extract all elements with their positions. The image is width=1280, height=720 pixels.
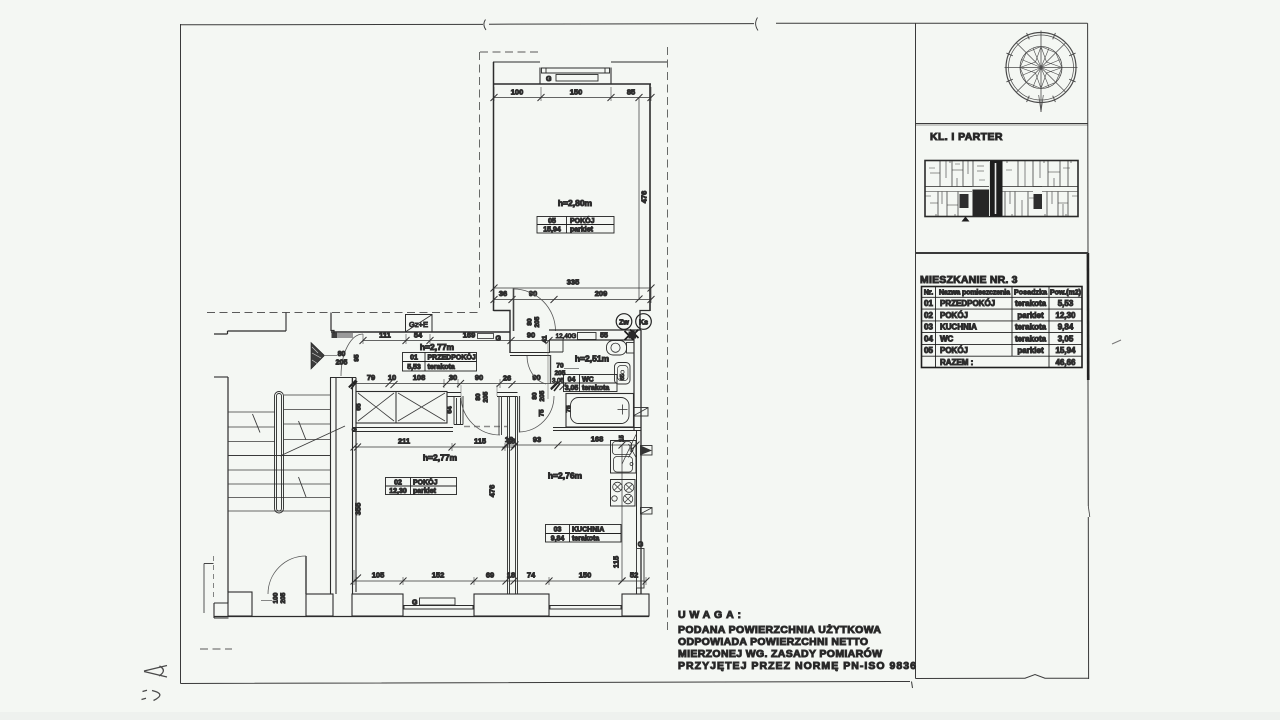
stove burner 4 crossed <box>623 494 633 504</box>
border frame top squiggle 2 <box>756 18 758 31</box>
svg-text:74: 74 <box>527 571 536 580</box>
south dimension line 105|152|69|18|74|150|52 <box>354 580 646 582</box>
kitchen sink dim ticks <box>619 442 626 585</box>
svg-text:ODPOWIADA POWIERZCHNI NETTO: ODPOWIADA POWIERZCHNI NETTO <box>678 636 868 648</box>
svg-text:12,40G: 12,40G <box>556 333 577 340</box>
room 05 radiator rect <box>556 75 598 82</box>
stair entry door leaf <box>305 556 307 594</box>
south wall block room02 west <box>352 594 403 616</box>
svg-text:Zw: Zw <box>619 320 629 327</box>
bathtub valve diagonal <box>634 408 648 416</box>
svg-text:100: 100 <box>273 592 280 603</box>
footprint bottom edge notches <box>936 161 1071 217</box>
toilet tank <box>627 343 635 354</box>
svg-text:152: 152 <box>432 571 445 580</box>
svg-text:115: 115 <box>612 556 621 568</box>
stair block north jamb vertical <box>285 313 287 332</box>
panel separator above table <box>916 252 1089 254</box>
svg-text:476: 476 <box>640 191 649 204</box>
svg-text:108: 108 <box>413 373 426 382</box>
south wall block pier <box>474 594 549 616</box>
entrance arrow triangle <box>311 343 325 370</box>
room 05 east vertical dimension ticks <box>636 94 643 303</box>
stair walls top cap <box>330 377 356 379</box>
stair block north wall <box>214 331 286 334</box>
hallway top dimension ticks <box>360 337 553 344</box>
svg-text:WC: WC <box>940 334 954 343</box>
svg-text:h=2,77m: h=2,77m <box>423 453 458 463</box>
svg-text:70: 70 <box>556 363 564 370</box>
svg-text:5,53: 5,53 <box>407 364 421 371</box>
room 05 north outer wall left segment <box>493 61 540 63</box>
closet outer rect <box>356 392 447 424</box>
kitchen sink taps <box>630 449 633 452</box>
svg-text:15,94: 15,94 <box>1055 346 1076 355</box>
closet south thin wall <box>352 428 453 432</box>
table column lines <box>936 287 1050 368</box>
stray mark right of table <box>1112 340 1121 344</box>
svg-text:parkiet: parkiet <box>1017 311 1044 320</box>
svg-text:65: 65 <box>620 374 626 380</box>
svg-text:POKÓJ: POKÓJ <box>940 346 968 355</box>
room 05 north outer wall right segment <box>611 61 667 63</box>
svg-text:80: 80 <box>532 392 539 400</box>
room02 door swing arc <box>461 397 500 436</box>
svg-text:PRZEDPOKÓJ: PRZEDPOKÓJ <box>428 353 476 362</box>
room02 name box <box>386 478 457 495</box>
compass web inner star <box>1020 47 1062 89</box>
svg-text:52: 52 <box>630 571 638 580</box>
svg-text:3,05: 3,05 <box>565 385 579 392</box>
entrance door arc <box>341 334 363 376</box>
table row lines <box>922 297 1083 356</box>
footprint lower corridor line <box>925 191 1078 193</box>
stair treads right flight <box>284 395 331 440</box>
svg-text:75: 75 <box>539 409 546 417</box>
compass web square 1 <box>1020 47 1062 89</box>
footprint stair core white slit <box>995 163 997 214</box>
svg-text:90: 90 <box>527 331 535 340</box>
closet divider <box>395 392 397 424</box>
stove burner 1 crossed <box>613 482 623 492</box>
handwritten chevron <box>152 691 160 701</box>
svg-text:95: 95 <box>354 354 361 362</box>
hallway west jamb wall <box>331 313 334 334</box>
svg-text:PRZEDPOKÓJ: PRZEDPOKÓJ <box>940 299 995 308</box>
svg-text:G: G <box>496 336 502 343</box>
svg-text:80: 80 <box>338 351 346 358</box>
dashed boundary vertical left <box>479 52 481 308</box>
kitchen sink basin lower <box>614 457 633 473</box>
svg-text:01: 01 <box>410 355 418 362</box>
closet X right <box>398 393 445 421</box>
kitchen sink basin upper <box>613 442 632 455</box>
kitchen sink unit <box>611 441 637 474</box>
wc north wall inner <box>549 339 634 341</box>
svg-text:03: 03 <box>924 323 933 332</box>
svg-text:355: 355 <box>354 503 363 516</box>
svg-text:30: 30 <box>449 373 457 382</box>
svg-text:18: 18 <box>507 437 515 446</box>
room02 window label rect <box>420 598 456 605</box>
stair treads lower flight <box>228 470 331 511</box>
svg-text:MIERZONEJ WG. ZASADY POMIARÓW: MIERZONEJ WG. ZASADY POMIARÓW <box>678 647 882 660</box>
stair arrow slash right lower <box>299 477 307 497</box>
svg-text:04: 04 <box>568 377 576 384</box>
room02 west wall <box>353 378 357 595</box>
room 05 bay window left jamb <box>539 68 541 85</box>
dimension extension lines room05 top <box>494 87 651 101</box>
stair entry door swing arc <box>268 556 306 594</box>
svg-text:211: 211 <box>398 437 410 446</box>
svg-text:15: 15 <box>620 435 626 442</box>
hallway north wall <box>331 331 510 333</box>
svg-text:209: 209 <box>595 289 608 298</box>
kitchen sink dim vertical 115 <box>621 445 623 581</box>
wc door swing arc <box>527 356 546 384</box>
south wall block stair east <box>306 594 333 616</box>
footprint dark block right stair <box>1034 194 1043 209</box>
east wall outer full <box>640 330 642 594</box>
svg-text:G: G <box>638 542 644 549</box>
svg-text:115: 115 <box>474 437 486 446</box>
wc name box <box>564 375 618 392</box>
entrance jamb dark block <box>332 332 338 338</box>
panel divider vertical <box>915 24 917 679</box>
svg-text:205: 205 <box>534 316 541 327</box>
svg-text:3,05: 3,05 <box>552 379 564 385</box>
svg-text:12,30: 12,30 <box>1055 311 1076 320</box>
svg-text:41: 41 <box>542 335 549 343</box>
room 05 southwest wall step <box>494 311 511 354</box>
border frame right gap jog <box>1088 506 1090 517</box>
svg-text:85: 85 <box>627 88 635 97</box>
south wall block stair west <box>228 592 252 616</box>
boiler circle Ks <box>636 314 652 330</box>
svg-text:205: 205 <box>336 360 348 367</box>
room02 top dimension line 211|115|18 <box>354 446 514 448</box>
room 05 southeast chimney notch <box>640 311 650 331</box>
room 05 name box <box>537 217 614 234</box>
svg-text:PRZYJĘTEJ PRZEZ NORMĘ PN-ISO 9: PRZYJĘTEJ PRZEZ NORMĘ PN-ISO 9836 <box>678 660 916 672</box>
entrance threshold hatch <box>336 333 353 339</box>
svg-text:150: 150 <box>579 571 592 580</box>
border frame bottom <box>181 675 1089 684</box>
svg-text:01: 01 <box>924 299 933 308</box>
room 05 top dimension line 100|150|85 <box>494 97 651 99</box>
svg-text:69: 69 <box>486 571 494 580</box>
room02 north wall right piece <box>497 393 518 397</box>
svg-text:POKÓJ: POKÓJ <box>940 311 968 320</box>
svg-text:335: 335 <box>567 278 580 287</box>
svg-text:205: 205 <box>483 391 490 402</box>
room 05 dimension extension verticals <box>494 288 651 303</box>
stair arrow slash right upper <box>299 421 307 440</box>
washbasin outer <box>615 363 631 385</box>
svg-text:h=2,51m: h=2,51m <box>575 354 610 364</box>
stair treads left flight <box>228 412 275 442</box>
wc north wall window rect <box>578 333 597 340</box>
kitchen name box <box>546 525 622 543</box>
hallway south dimension ticks <box>349 380 567 390</box>
svg-text:04: 04 <box>924 334 933 343</box>
svg-text:terakota: terakota <box>1015 299 1047 308</box>
footprint room details <box>930 166 1068 205</box>
svg-text:3,05: 3,05 <box>1058 334 1074 343</box>
room 05 dimension 335 ticks <box>491 285 655 292</box>
stair block west wall cap <box>214 376 228 378</box>
svg-text:105: 105 <box>372 571 385 580</box>
svg-text:15,94: 15,94 <box>543 227 561 234</box>
svg-text:Gz+E: Gz+E <box>409 320 428 329</box>
svg-text:G: G <box>412 600 418 607</box>
svg-text:MIESZKANIE NR. 3: MIESZKANIE NR. 3 <box>920 274 1018 286</box>
room 05 east wall <box>649 84 651 311</box>
room02 window glazing <box>403 606 474 610</box>
svg-text:Posadzka: Posadzka <box>1014 290 1047 297</box>
wc door leaf <box>550 355 552 384</box>
handwritten letter A rotated <box>144 666 167 678</box>
hallway top dimension line 111|54|169|90 <box>363 340 549 342</box>
svg-text:h=2,76m: h=2,76m <box>548 471 583 481</box>
east wall kitchen inner <box>636 431 638 594</box>
border frame left <box>180 24 182 684</box>
svg-text:80: 80 <box>475 393 482 401</box>
svg-text:RAZEM :: RAZEM : <box>940 358 973 367</box>
wc dim extension vertical <box>547 341 549 399</box>
stair block west wall <box>227 377 229 592</box>
stair railing loop <box>275 392 284 514</box>
footprint dark block left stair <box>960 194 969 208</box>
svg-text:h=2,80m: h=2,80m <box>558 198 593 208</box>
south dimension ticks <box>351 578 650 585</box>
footprint bottom partitions <box>938 192 1068 217</box>
room02 door jamb stub <box>454 396 463 425</box>
border frame top <box>181 23 1088 25</box>
svg-text:205: 205 <box>555 370 566 377</box>
flue junction blob <box>629 332 637 339</box>
svg-text:79: 79 <box>367 373 375 382</box>
stove <box>611 480 636 507</box>
border frame right <box>1088 23 1089 679</box>
vestibule south wall to wc <box>510 353 550 356</box>
border frame bottom tick <box>912 682 913 689</box>
svg-text:Pow.(m2): Pow.(m2) <box>1050 290 1081 297</box>
footprint entrance triangle <box>962 217 970 222</box>
dashed fragment west <box>213 556 215 600</box>
bathroom south wall <box>553 428 641 431</box>
kitchen south window glazing <box>549 606 622 610</box>
svg-text:05: 05 <box>548 218 556 225</box>
neighbor wall fragment far west <box>204 564 214 614</box>
svg-text:parkiet: parkiet <box>413 488 437 495</box>
bathtub inner <box>571 398 630 424</box>
stove burner 2 crossed <box>624 483 634 493</box>
svg-text:111: 111 <box>379 331 391 340</box>
svg-text:02: 02 <box>394 480 402 487</box>
svg-text:parkiet: parkiet <box>570 227 594 234</box>
svg-text:POKÓJ: POKÓJ <box>413 478 438 487</box>
svg-text:03: 03 <box>554 527 562 534</box>
svg-text:168: 168 <box>591 435 604 444</box>
compass south needle <box>1039 95 1044 112</box>
south wall outer line <box>214 616 649 618</box>
svg-text:54: 54 <box>414 331 423 340</box>
svg-text:12,30: 12,30 <box>389 488 407 495</box>
hallway dim tick cluster dark <box>349 381 560 392</box>
stair entry leader line <box>261 600 272 602</box>
compass rim ticks <box>1006 33 1075 102</box>
dim extension verticals door zone <box>461 385 497 396</box>
bathtub valve box <box>634 408 649 417</box>
vent flag lower <box>641 508 653 515</box>
svg-text:26: 26 <box>503 374 511 383</box>
dashed fragment bottom left <box>200 648 232 650</box>
paper bottom shading <box>0 712 1280 720</box>
dimension extension lines hallway <box>352 334 500 388</box>
washbasin tap <box>621 370 624 373</box>
stair landing edge <box>228 455 331 457</box>
hallway name box <box>403 353 477 372</box>
svg-text:150: 150 <box>570 88 583 97</box>
room02 door leaf <box>499 396 502 435</box>
svg-text:169: 169 <box>463 331 476 340</box>
dashed boundary vertical right <box>667 47 669 630</box>
svg-text:205: 205 <box>539 390 546 401</box>
room02 west dim ticks 355 <box>354 444 361 582</box>
svg-text:KUCHNIA: KUCHNIA <box>572 527 604 534</box>
border frame top squiggle 1 <box>484 20 486 31</box>
border frame right thick segment <box>1087 253 1090 380</box>
wc door jamb block <box>550 340 564 352</box>
toilet bowl <box>607 341 627 356</box>
room02 north wall left piece <box>447 393 461 397</box>
svg-text:G: G <box>546 76 552 83</box>
wc door leader line <box>564 368 579 370</box>
svg-text:46,66: 46,66 <box>1055 358 1076 367</box>
building footprint mini plan <box>925 161 1078 217</box>
svg-text:POKÓJ: POKÓJ <box>570 216 595 225</box>
room 05 bay window glazing lines <box>541 68 610 73</box>
svg-text:64: 64 <box>447 406 454 414</box>
boiler circle Zw <box>616 314 632 330</box>
svg-text:h=2,77m: h=2,77m <box>420 342 455 352</box>
compass rose <box>1005 31 1078 113</box>
handwritten colon dashes <box>142 690 148 699</box>
svg-text:KUCHNIA: KUCHNIA <box>940 323 977 332</box>
footprint top partitions <box>940 161 1068 187</box>
vent flag upper <box>641 446 653 456</box>
entrance arrow hatch <box>312 347 321 364</box>
closet wall hidden dashed line <box>464 426 507 428</box>
stair direction long diagonal <box>280 426 345 456</box>
footprint extra partitions and nibs <box>942 161 1063 217</box>
footprint inner room marks <box>925 164 1078 198</box>
svg-text:Ks: Ks <box>639 320 648 327</box>
compass sixteen rays <box>1022 48 1061 87</box>
svg-text:terakota: terakota <box>1015 323 1047 332</box>
room 05 bottom dimension ticks <box>491 296 655 303</box>
svg-text:80: 80 <box>527 318 534 326</box>
footprint mid horizontal wall <box>925 186 1078 188</box>
svg-text:terakota: terakota <box>572 536 599 543</box>
svg-text:476: 476 <box>488 485 497 498</box>
svg-text:Nr.: Nr. <box>924 290 933 297</box>
room02 top dimension ticks <box>351 444 518 451</box>
stair east wall / apartment west wall <box>331 378 337 595</box>
svg-text:18: 18 <box>507 571 515 580</box>
room 05 north wall inner <box>493 83 651 85</box>
panel separator under compass <box>916 123 1089 125</box>
partition wall room02 kitchen <box>508 397 518 595</box>
svg-text:93: 93 <box>533 435 541 444</box>
room 05 top dimension ticks <box>491 94 655 101</box>
washbasin inner <box>618 366 629 381</box>
kitchen top dimension line 18|93|168 <box>506 444 636 446</box>
room 05 east vertical dimension line 476 <box>638 98 640 300</box>
entrance leader line <box>325 355 337 357</box>
room 05 bottom dimension line 36|90|209 <box>494 299 651 301</box>
apartment table <box>922 287 1083 368</box>
svg-text:76: 76 <box>566 405 573 413</box>
bathtub outer rect <box>566 394 634 428</box>
svg-text:terakota: terakota <box>428 364 455 371</box>
svg-text:PODANA POWIERZCHNIA UŻYTKOWA: PODANA POWIERZCHNIA UŻYTKOWA <box>678 623 881 636</box>
svg-text:55: 55 <box>600 333 608 340</box>
svg-text:terakota: terakota <box>582 385 609 392</box>
svg-text:02: 02 <box>924 311 933 320</box>
svg-text:05: 05 <box>924 346 933 355</box>
room 05 bay window right jamb <box>610 68 612 85</box>
footprint stair core black center <box>990 161 1003 217</box>
wc north wall outer <box>549 329 641 331</box>
dashed boundary horizontal mid <box>207 312 479 314</box>
kitchen east window rect <box>637 549 645 589</box>
closet X left <box>358 393 394 421</box>
flue junction dark cluster <box>625 330 639 341</box>
gas meter box diagonal <box>406 315 432 332</box>
svg-text:Nazwa pomieszczenia: Nazwa pomieszczenia <box>939 290 1010 297</box>
svg-text:9,84: 9,84 <box>1058 323 1074 332</box>
kitchen top dimension ticks <box>503 442 640 449</box>
svg-text:parkiet: parkiet <box>1017 346 1044 355</box>
svg-text:205: 205 <box>280 592 287 603</box>
svg-text:WC: WC <box>582 377 594 384</box>
compass main cross <box>1005 31 1078 113</box>
room 05 door leaf <box>513 289 515 332</box>
svg-text:terakota: terakota <box>1015 334 1047 343</box>
room 05 door swing arc <box>514 289 556 331</box>
stair southwest corner step <box>214 592 229 618</box>
dimension extension lines south <box>354 443 646 585</box>
svg-text:90: 90 <box>475 373 483 382</box>
stair arrow slash left <box>253 414 261 433</box>
footprint dark block mid-left <box>973 190 990 217</box>
hallway south dimension line 79|10|108|30|90|26|90 <box>352 383 563 385</box>
svg-text:9,84: 9,84 <box>551 536 565 543</box>
stove burner 3 small <box>612 496 617 501</box>
compass diagonals <box>1016 43 1065 92</box>
dashed boundary horizontal top <box>480 51 538 53</box>
svg-text:36: 36 <box>499 289 507 298</box>
south wall block east corner <box>622 594 649 616</box>
kitchen door swing arc <box>519 396 554 432</box>
bathtub drain cross <box>618 405 628 415</box>
svg-text:5,53: 5,53 <box>1058 299 1074 308</box>
kitchen sink drainer diagonals <box>622 435 636 465</box>
svg-text:10: 10 <box>388 373 396 382</box>
gas meter box Gz+E <box>406 315 433 333</box>
